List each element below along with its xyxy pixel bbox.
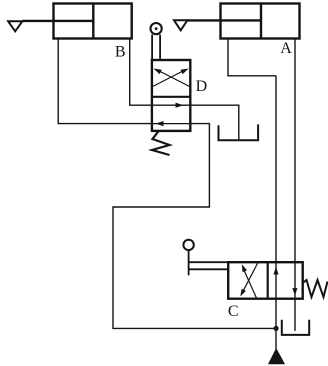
cylinder A bbox=[187, 4, 299, 39]
tank T1 bbox=[219, 124, 259, 140]
tank T2 bbox=[282, 320, 309, 335]
svg-text:D: D bbox=[196, 78, 208, 95]
wire cylinder A right port through valve C (down arrow line) to tank T2 bbox=[294, 39, 296, 331]
valve D flow path line (right arrow, port 1 to port 3) bbox=[152, 104, 190, 106]
cylinder A rod end marker (open triangle) bbox=[174, 20, 187, 30]
svg-text:B: B bbox=[115, 44, 126, 61]
valve C push-button actuator bbox=[183, 240, 228, 276]
wire valve D port 4 to supply junction bbox=[113, 124, 276, 329]
junction node (supply tee) bbox=[274, 326, 279, 331]
svg-text:C: C bbox=[228, 303, 239, 320]
valve C body (4/2 valve, two positions) bbox=[228, 262, 303, 299]
valve D flow path line (left arrow, port 4 to port 2) bbox=[152, 123, 190, 125]
valve C divider between positions bbox=[267, 262, 269, 299]
valve D position 1 crossed-arrows bbox=[152, 69, 189, 87]
valve C spring bbox=[303, 280, 328, 297]
svg-text:A: A bbox=[280, 40, 292, 57]
valve D position 2 arrowheads bbox=[176, 103, 184, 108]
pressure source triangle bbox=[269, 349, 284, 364]
valve C position 2 arrowheads bbox=[273, 267, 278, 275]
cylinder B bbox=[22, 4, 131, 39]
wire cylinder B left port to valve D port 2 bbox=[58, 39, 152, 124]
cylinder B rod end marker (open triangle) bbox=[8, 21, 22, 31]
wire cylinder B right port to valve D port 1 bbox=[130, 39, 152, 106]
wire cylinder A left port to valve C port A bbox=[228, 39, 276, 76]
valve C position 1 crossed-arrows bbox=[240, 263, 257, 298]
valve D roller actuator bbox=[151, 23, 162, 61]
wire / supply line through valve C (up arrow line) to source bbox=[275, 76, 277, 349]
wire valve D port 3 to tank T1 bbox=[190, 105, 239, 139]
valve D spring bbox=[152, 131, 170, 155]
valve D body (4/2 valve, two positions) bbox=[152, 60, 190, 131]
valve D divider between positions bbox=[152, 96, 190, 98]
